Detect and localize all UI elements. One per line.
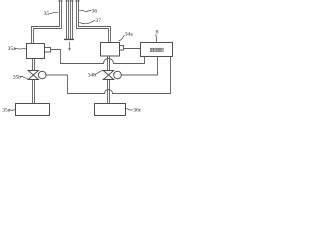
svg-text:35: 35 bbox=[44, 11, 50, 17]
svg-text:35a: 35a bbox=[8, 46, 17, 52]
svg-text:35b: 35b bbox=[13, 74, 22, 80]
svg-text:34b: 34b bbox=[88, 73, 97, 79]
svg-text:37: 37 bbox=[95, 18, 101, 24]
svg-text:36: 36 bbox=[92, 9, 98, 15]
svg-text:35c: 35c bbox=[2, 107, 11, 113]
svg-text:8: 8 bbox=[156, 30, 159, 36]
svg-text:34a: 34a bbox=[125, 32, 134, 38]
svg-text:36c: 36c bbox=[133, 107, 142, 113]
